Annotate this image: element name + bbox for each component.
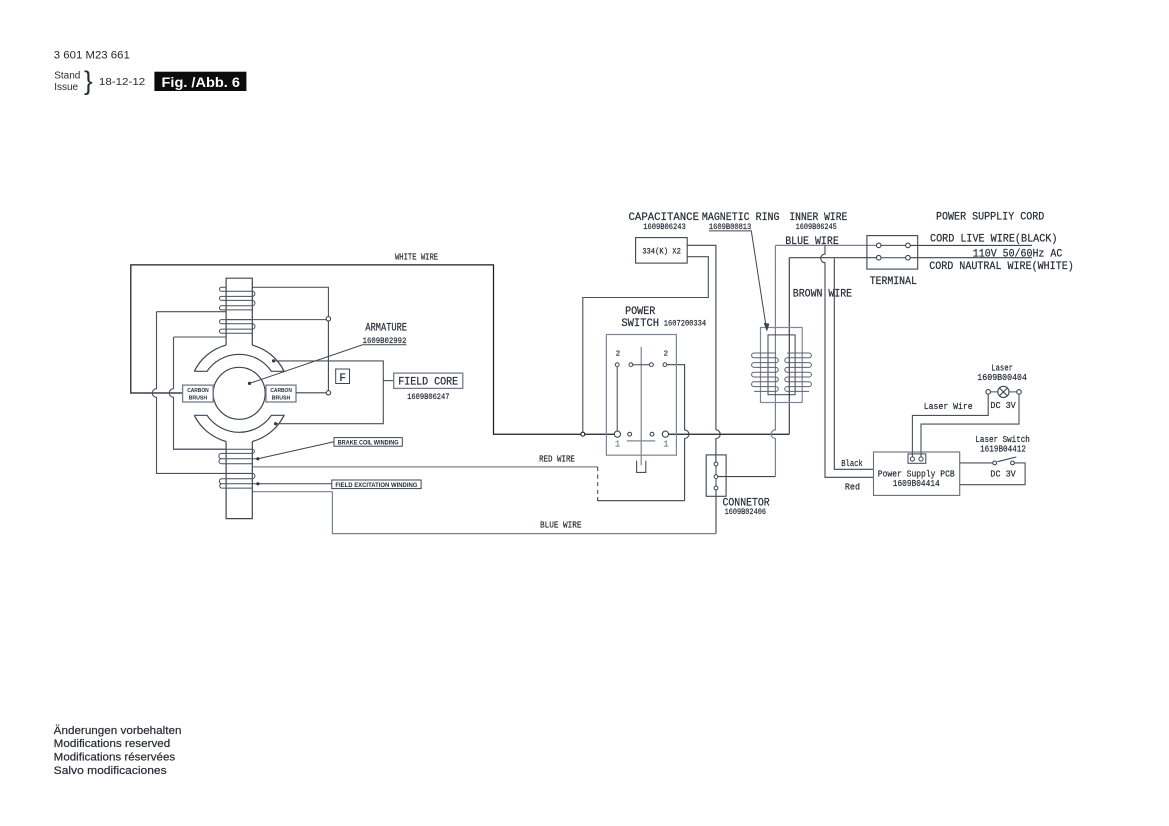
upper pole shoe arcs	[194, 345, 284, 371]
svg-text:BRUSH: BRUSH	[189, 395, 208, 401]
svg-text:ARMATURE: ARMATURE	[365, 322, 407, 334]
wire winding top tap to brush riser	[226, 319, 326, 321]
armature circle	[213, 367, 265, 419]
wire brown riser (terminal to main wire)	[788, 258, 790, 435]
terminal circle lower (brush tap)	[326, 391, 330, 395]
svg-text:3 601 M23 661: 3 601 M23 661	[54, 50, 130, 62]
svg-text:1: 1	[615, 439, 620, 449]
svg-text:Red: Red	[845, 482, 860, 492]
svg-text:1609B00813: 1609B00813	[709, 222, 751, 232]
wire vertical B with hop over brush wire	[152, 312, 252, 474]
svg-text:1609B06243: 1609B06243	[643, 222, 686, 232]
svg-text:WHITE WIRE: WHITE WIRE	[395, 251, 438, 262]
svg-text:Black: Black	[841, 459, 863, 469]
laser switch symbol	[993, 461, 997, 465]
wire connector riser hop over main wire, to connector	[716, 430, 720, 462]
wire blue-wire from field excitation winding to connector	[253, 492, 716, 534]
wire white-wire main loop: left brush to power switch	[131, 265, 615, 434]
svg-text:Salvo modificaciones: Salvo modificaciones	[54, 765, 167, 777]
wire laser right lead to PCB	[921, 394, 1019, 457]
terminal contacts	[876, 243, 910, 260]
wire capacitor top lead to connector riser	[687, 245, 716, 430]
connector pins	[714, 462, 718, 490]
junction terminal circle on main wire (capacitor drop)	[581, 432, 585, 436]
terminal circle upper (winding tap)	[326, 317, 330, 321]
wire laser left lead to PCB	[912, 394, 988, 457]
capacitor box 334(K) X2	[636, 238, 688, 264]
field core bracket with junction dots	[272, 359, 275, 362]
switch internal wiring	[616, 367, 618, 432]
svg-text:BRAKE COIL WINDING: BRAKE COIL WINDING	[338, 439, 399, 446]
upper field winding rows	[219, 287, 328, 333]
wire terminal left leads	[775, 244, 876, 246]
magnetic ring outer rect	[761, 328, 803, 403]
svg-text:1607200334: 1607200334	[664, 318, 706, 328]
wire switch upper contact riser with hop over main wire	[667, 365, 689, 501]
svg-text:Stand: Stand	[54, 71, 80, 82]
svg-text:DC 3V: DC 3V	[990, 401, 1016, 411]
svg-text:1609B02406: 1609B02406	[725, 507, 766, 517]
svg-text:POWER SUPPLIY CORD: POWER SUPPLIY CORD	[936, 212, 1045, 224]
wire capacitor bottom lead down to main wire junction	[583, 257, 709, 433]
FIELD CORE label box	[394, 373, 463, 388]
motor lower stem (field core pole)	[226, 442, 252, 519]
wire blue wire riser (terminal to connector) with hop	[771, 245, 775, 476]
svg-text:334(K) X2: 334(K) X2	[642, 247, 681, 257]
magnetic ring inner rect	[768, 335, 795, 395]
svg-text:1609B00404: 1609B00404	[977, 373, 1027, 383]
svg-text:BRUSH: BRUSH	[272, 395, 291, 401]
armature junction dot and leader	[248, 382, 251, 385]
svg-text:18-12-12: 18-12-12	[99, 76, 145, 88]
svg-text:F: F	[339, 373, 346, 385]
laser lamp terminals	[986, 390, 991, 395]
svg-text:CARBON: CARBON	[187, 388, 209, 394]
connector box	[706, 455, 726, 496]
svg-text:BLUE WIRE: BLUE WIRE	[785, 236, 839, 248]
wire vertical C with hop over brush wire	[169, 337, 226, 449]
wire between winding terminals	[327, 321, 329, 391]
svg-text:DC 3V: DC 3V	[990, 470, 1016, 480]
lower pole shoe arcs	[194, 415, 284, 441]
switch bridge bar	[627, 440, 656, 442]
label box BRAKE COIL WINDING with leader	[258, 442, 334, 459]
svg-text:BLUE WIRE: BLUE WIRE	[540, 521, 582, 531]
magnetic ring windings left	[752, 353, 779, 391]
svg-text:}: }	[84, 66, 93, 96]
lower field winding rows	[174, 449, 258, 488]
PCB top connector	[908, 454, 926, 463]
svg-text:Issue: Issue	[54, 82, 78, 93]
power switch box	[606, 335, 676, 456]
carbon brush right box	[266, 385, 296, 402]
svg-text:1609B02992: 1609B02992	[363, 336, 407, 346]
wire left tap upper (to vertical B)	[157, 311, 227, 313]
wire cord neutral lead	[910, 257, 1032, 259]
svg-text:1609B06245: 1609B06245	[796, 222, 837, 232]
label box FIELD EXCITATION WINDING with leader	[258, 483, 332, 485]
wire left tap upper (to vertical C)	[174, 336, 227, 338]
wire connector middle pin to blue-wire riser	[718, 476, 776, 478]
wire red lead to PCB with hop	[821, 245, 874, 477]
svg-text:CORD LIVE WIRE(BLACK): CORD LIVE WIRE(BLACK)	[930, 234, 1057, 246]
footer modification notes	[54, 725, 182, 777]
terminal block box	[867, 236, 918, 270]
motor upper stem (field core pole)	[226, 278, 252, 345]
wire laser switch return loop	[960, 463, 1025, 485]
magnetic ring windings right	[785, 353, 812, 391]
svg-text:1609B06247: 1609B06247	[407, 392, 449, 402]
svg-text:1: 1	[663, 439, 668, 449]
svg-text:SWITCH: SWITCH	[621, 318, 659, 330]
svg-text:CORD NAUTRAL WIRE(WHITE): CORD NAUTRAL WIRE(WHITE)	[929, 261, 1074, 273]
power supply PCB box	[874, 452, 960, 495]
wire right brush to terminal circle	[296, 392, 326, 394]
figure label box Fig./Abb. 6	[154, 72, 246, 91]
wire main AC line from switch to terminal riser	[669, 433, 790, 435]
svg-text:RED WIRE: RED WIRE	[539, 455, 575, 465]
junction dot brake coil tap	[256, 457, 259, 460]
wire cord live lead	[910, 244, 1032, 246]
switch bottom contacts	[614, 431, 668, 437]
junction dot field excitation tap	[256, 482, 259, 485]
svg-text:Laser Wire: Laser Wire	[924, 402, 973, 412]
stand/issue label	[54, 66, 145, 96]
svg-text:2: 2	[616, 350, 620, 358]
wire PCB to laser switch	[960, 462, 993, 464]
svg-text:Änderungen vorbehalten: Änderungen vorbehalten	[54, 725, 182, 737]
svg-text:TERMINAL: TERMINAL	[870, 276, 917, 288]
wire black lead to PCB	[834, 258, 873, 469]
svg-text:Fig. /Abb. 6: Fig. /Abb. 6	[162, 75, 241, 90]
svg-text:Modifications réservées: Modifications réservées	[54, 752, 176, 764]
switch top contacts	[615, 363, 667, 367]
svg-text:POWER: POWER	[625, 306, 656, 318]
switch actuator U bracket	[637, 461, 646, 473]
laser lamp symbol	[998, 386, 1009, 397]
svg-text:BROWN WIRE: BROWN WIRE	[793, 288, 853, 300]
svg-text:110V 50/60Hz AC: 110V 50/60Hz AC	[973, 249, 1063, 261]
svg-text:FIELD EXCITATION WINDING: FIELD EXCITATION WINDING	[335, 482, 417, 489]
switch actuator center line	[640, 347, 642, 465]
svg-text:2: 2	[664, 350, 668, 358]
wire red-wire dashed drop to switch return	[597, 467, 599, 497]
svg-text:1619B04412: 1619B04412	[980, 444, 1026, 454]
svg-text:FIELD CORE: FIELD CORE	[398, 376, 458, 388]
svg-text:CARBON: CARBON	[270, 388, 292, 394]
wire red-wire from brake coil winding	[253, 466, 598, 468]
svg-text:Modifications reserved: Modifications reserved	[54, 738, 171, 750]
F box	[336, 369, 350, 384]
carbon brush left box	[183, 385, 214, 402]
svg-text:1609B04414: 1609B04414	[893, 479, 940, 489]
